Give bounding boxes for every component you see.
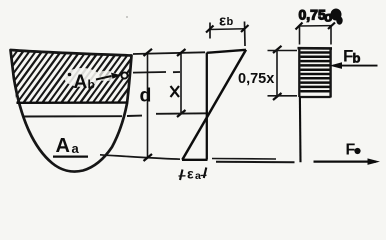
epsilon-a right tick	[204, 168, 207, 179]
x top tick	[177, 49, 186, 56]
epsilon-a left tick	[180, 170, 183, 181]
stress block hatching stripes	[301, 53, 330, 92]
steel-level extension line from section	[100, 155, 180, 159]
leader line from Ab	[96, 76, 112, 80]
svg-text:ε: ε	[219, 13, 226, 30]
underline of Aa	[53, 155, 88, 157]
stress block width dimension line	[299, 25, 332, 27]
neutral axis extension line	[156, 112, 208, 115]
section outline (parabolic beam cross-section)	[11, 50, 132, 172]
svg-text:b: b	[353, 51, 361, 66]
dimension d line	[147, 53, 149, 158]
epsilon-b dimension line	[209, 28, 245, 31]
top extension line (section top to strain axis)	[133, 52, 205, 54]
epsilon-b left stub	[209, 23, 211, 39]
Fb arrowhead	[330, 62, 343, 69]
epsilon-a baseline	[179, 175, 186, 177]
svg-text:0,75x: 0,75x	[238, 71, 274, 87]
epsilon-b right stub	[244, 22, 247, 47]
svg-text:b: b	[227, 16, 234, 28]
0.75x top extension line	[268, 50, 298, 52]
svg-text:F: F	[346, 142, 356, 159]
small circle (bar mark) near right edge	[121, 72, 127, 78]
dimension x line	[180, 53, 182, 114]
width dim right tick	[328, 23, 335, 30]
leader dash near x-line	[173, 71, 180, 73]
force Fb arrow	[333, 65, 378, 67]
steel-level extension line right of strain diagram (lower)	[216, 161, 295, 163]
svg-text:0,75: 0,75	[299, 7, 326, 23]
svg-text:ε: ε	[187, 166, 194, 182]
label 0,75 sigma-b (smudged)	[299, 7, 343, 25]
svg-text:d: d	[140, 85, 152, 107]
force Fa arrow	[314, 161, 377, 163]
d top tick	[144, 49, 153, 56]
faint speck	[126, 16, 128, 18]
d bottom tick	[144, 154, 153, 161]
0.75x bottom extension line	[268, 95, 298, 97]
svg-text:a: a	[72, 141, 80, 156]
strain line (diagonal)	[182, 50, 246, 160]
svg-text:a: a	[195, 170, 201, 182]
short dash right of section at chord level	[127, 115, 142, 117]
svg-text:A: A	[56, 135, 70, 157]
strain diagram bottom edge	[182, 159, 208, 161]
axis line below stress block	[299, 97, 302, 162]
stress block top edge	[298, 47, 333, 50]
svg-text:A: A	[74, 72, 88, 93]
leader continuation line to dimension zone	[133, 71, 166, 74]
stress block left edge	[298, 48, 300, 97]
Fa arrowhead	[368, 158, 381, 165]
0.75x top tick	[273, 46, 282, 53]
x bottom tick	[177, 110, 186, 117]
svg-text:b: b	[88, 78, 95, 92]
second chord line inside section	[24, 115, 123, 117]
neutral axis chord (bottom of hatched zone)	[17, 101, 129, 104]
strain diagram axis	[206, 53, 208, 160]
0.75x dimension line	[276, 50, 278, 97]
hatched compression zone Ab	[0, 38, 165, 112]
stress block bottom edge	[299, 96, 330, 98]
epsilon-b right tick	[241, 25, 249, 32]
stress block right edge	[329, 48, 331, 98]
halo gap in hatching for label Ab	[64, 68, 100, 87]
width dim left stub	[299, 27, 301, 45]
epsilon-b left tick	[206, 26, 214, 33]
strain diagram top edge	[207, 50, 246, 53]
leader arrowhead	[111, 73, 121, 79]
label Ab with leader dot	[68, 73, 72, 77]
0.75x bottom tick	[273, 93, 282, 100]
width dim right stub	[330, 26, 332, 45]
width dim left tick	[296, 23, 303, 30]
label x (two strokes)	[171, 86, 180, 97]
steel-level extension line right of strain diagram (upper)	[212, 158, 276, 161]
